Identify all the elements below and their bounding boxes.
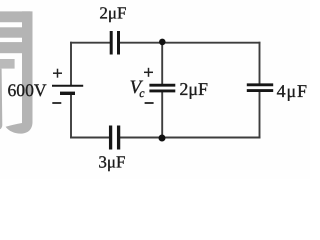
capacitor C2 2uF plates (middle) bbox=[149, 85, 175, 91]
watermark left sliver bbox=[0, 69, 2, 130]
svg-text:3μF: 3μF bbox=[98, 152, 125, 171]
watermark middle bar bbox=[0, 27, 23, 37]
battery short plate bbox=[60, 92, 75, 95]
svg-text:Vc: Vc bbox=[130, 77, 146, 100]
battery V1 600V bbox=[52, 86, 83, 94]
wire bottom-right segment bbox=[120, 137, 259, 139]
capacitor C3 3uF plates (bottom) bbox=[111, 126, 119, 150]
battery polarity plus bbox=[53, 69, 62, 78]
capacitor C4 4uF plates (right) bbox=[247, 85, 273, 91]
wire right upper bbox=[259, 43, 261, 84]
wire middle lower bbox=[161, 92, 163, 137]
wire top-right segment bbox=[120, 42, 260, 44]
capacitor C1 2uF plates (top) bbox=[111, 31, 118, 55]
battery polarity minus bbox=[52, 102, 61, 104]
capacitor C2 polarity plus bbox=[144, 68, 153, 77]
svg-text:600V: 600V bbox=[8, 80, 47, 100]
wire left lower bbox=[70, 95, 72, 138]
svg-text:2μF: 2μF bbox=[99, 3, 126, 22]
node dot top bbox=[159, 39, 166, 46]
battery long plate bbox=[52, 85, 83, 87]
wire left upper bbox=[70, 43, 72, 85]
watermark logo fragment (gray) bbox=[0, 11, 33, 133]
watermark small block bbox=[0, 59, 15, 69]
watermark lower bar bbox=[0, 42, 23, 53]
capacitor C2 polarity minus bbox=[145, 102, 154, 104]
wires bbox=[71, 43, 260, 138]
node dot bottom bbox=[159, 135, 166, 142]
watermark vertical bar with hook bbox=[6, 11, 33, 133]
watermark top bar bbox=[0, 11, 33, 22]
svg-text:2μF: 2μF bbox=[179, 79, 208, 99]
wire bottom-left segment bbox=[71, 137, 109, 139]
svg-text:4μF: 4μF bbox=[277, 81, 308, 101]
wire right lower bbox=[259, 92, 261, 137]
wire middle upper bbox=[161, 43, 163, 84]
wire top-left segment bbox=[71, 42, 110, 44]
